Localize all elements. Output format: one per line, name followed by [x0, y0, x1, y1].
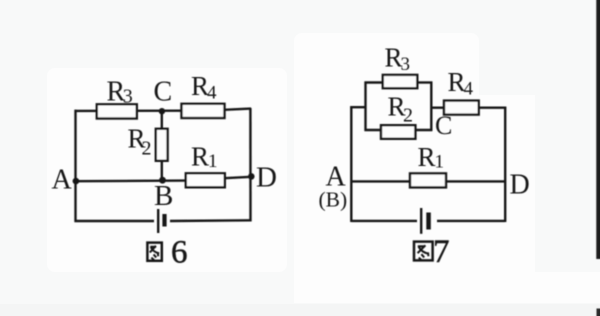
resistor R1 (fig6): [186, 173, 225, 187]
svg-text:6: 6: [171, 235, 188, 271]
svg-text:(B): (B): [319, 188, 348, 212]
resistor R3 (fig6): [97, 104, 137, 118]
wire R3 branch left (fig7): [365, 81, 383, 83]
svg-text:C: C: [154, 77, 173, 108]
wire bottom right segment (fig7): [437, 220, 505, 222]
wire right bracket of parallel pair (fig7): [430, 82, 432, 132]
wire bottom right segment (fig6): [170, 219, 251, 222]
battery cell (fig6): [158, 209, 166, 233]
wire bottom left segment (fig7): [351, 220, 417, 222]
svg-text:B: B: [154, 180, 173, 212]
wire feed to parallel bracket (fig7): [350, 106, 365, 108]
wire bracket to R4 (fig7): [431, 106, 444, 108]
resistor R2 (fig6): [156, 129, 168, 161]
battery cell (fig7): [421, 208, 431, 234]
wire right vertical (fig6): [249, 108, 252, 222]
wire C to B through R2 (fig6): [161, 111, 163, 181]
node C junction dot (fig6): [159, 108, 165, 114]
caption figure-7 glyph TU (fig7): [414, 242, 433, 261]
wire A to D line (fig6): [75, 179, 187, 182]
wire left vertical (fig7): [350, 106, 352, 222]
wire A to D line (fig7): [351, 180, 505, 182]
caption figure-6 glyph TU (fig6): [147, 243, 161, 261]
node B junction dot (fig6): [159, 177, 166, 184]
resistor R4 (fig6): [182, 104, 225, 118]
wire top (fig6): [75, 109, 183, 112]
wire right vertical (fig7): [504, 107, 506, 222]
resistor R1 (fig7): [410, 173, 446, 187]
wire R2 branch left (fig7): [365, 129, 382, 131]
wire R3 branch right (fig7): [417, 81, 432, 83]
resistor R4 (fig7): [444, 101, 479, 115]
svg-text:A: A: [52, 164, 73, 195]
wire R4 to right vertical (fig7): [479, 106, 507, 108]
svg-text:D: D: [510, 170, 530, 201]
bottom-right page mark: [597, 309, 600, 316]
wire R2 branch right (fig7): [415, 129, 432, 131]
node D junction dot (fig6): [248, 173, 255, 180]
svg-text:D: D: [256, 162, 277, 194]
wire bottom left segment (fig6): [75, 220, 155, 222]
svg-text:C: C: [435, 111, 452, 140]
page right border line: [596, 0, 600, 259]
wire left vertical (fig6): [74, 110, 76, 222]
resistor R3 (fig7): [383, 75, 418, 88]
node A junction dot (fig6): [73, 178, 80, 185]
wire left bracket of parallel pair (fig7): [364, 82, 366, 132]
svg-text:7: 7: [433, 234, 450, 270]
resistor R2 (fig7): [381, 125, 415, 139]
